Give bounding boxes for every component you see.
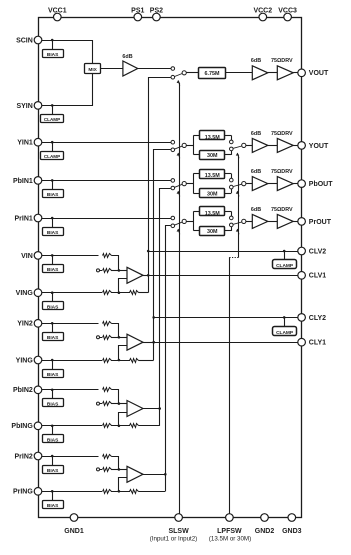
svg-text:VOUT: VOUT bbox=[309, 70, 329, 77]
wire VING row with resistors bbox=[42, 291, 148, 295]
filter Y 13.5M bbox=[193, 131, 231, 141]
resistor Pb ref bbox=[100, 402, 128, 406]
pin CLY2 bbox=[298, 314, 326, 322]
filter Pr 30M bbox=[193, 227, 231, 236]
LPFSW control arrow Y bbox=[237, 153, 239, 158]
pin GND1 bbox=[64, 514, 84, 535]
svg-text:(13.5M or 30M): (13.5M or 30M) bbox=[209, 536, 251, 543]
wire driver to output pin Pb bbox=[293, 183, 298, 185]
wire 6dB to 75ohm driver Pr bbox=[268, 221, 278, 223]
switch Pb input select bbox=[171, 179, 186, 190]
op-amp Y2 input amp bbox=[127, 334, 143, 350]
svg-text:BIAS: BIAS bbox=[47, 372, 59, 378]
svg-text:BIAS: BIAS bbox=[47, 468, 59, 474]
wire SYIN to MIX bbox=[42, 74, 93, 106]
pin VING bbox=[16, 289, 42, 297]
BIAS block under VING bbox=[43, 291, 64, 310]
BIAS block under YING bbox=[43, 359, 64, 378]
svg-text:30M: 30M bbox=[207, 153, 218, 159]
junction node V minus input bbox=[118, 291, 121, 294]
svg-text:GND3: GND3 bbox=[282, 528, 302, 535]
BIAS block under PbIN2 bbox=[43, 389, 64, 408]
wire driver to output pin V bbox=[293, 72, 298, 74]
svg-text:6dB: 6dB bbox=[251, 58, 261, 64]
wire CLY1 row (Y amp output) bbox=[154, 342, 298, 344]
switch Pr LPF select bbox=[230, 216, 246, 227]
wire Y feedback up bbox=[153, 342, 155, 360]
BIAS block under SCIN bbox=[43, 39, 64, 58]
wire Y minus input bbox=[119, 346, 128, 361]
op-amp 6dB Pr bbox=[251, 207, 268, 229]
junction node V plus input bbox=[118, 269, 121, 272]
wire V feedback up bbox=[148, 275, 150, 292]
op-amp 75 ohm driver Pb bbox=[271, 169, 293, 191]
pin CLV1 bbox=[298, 272, 326, 280]
svg-text:YOUT: YOUT bbox=[309, 143, 329, 150]
BIAS block under PbIN1 bbox=[43, 179, 64, 198]
svg-text:CLAMP: CLAMP bbox=[44, 154, 60, 159]
svg-text:VCC3: VCC3 bbox=[278, 8, 297, 15]
svg-text:BIAS: BIAS bbox=[47, 52, 59, 58]
op-amp V2 input amp bbox=[127, 267, 143, 283]
svg-text:30M: 30M bbox=[207, 191, 218, 197]
wire YING row with resistors bbox=[42, 359, 154, 363]
svg-text:6dB: 6dB bbox=[122, 54, 132, 60]
wire SCIN to MIX bbox=[42, 41, 93, 64]
op-amp Pr2 input amp bbox=[127, 466, 143, 482]
wire CLY2 row bbox=[154, 317, 298, 319]
svg-text:GND1: GND1 bbox=[64, 528, 84, 535]
wire PbING row with resistors bbox=[42, 424, 160, 428]
filter Pb 30M bbox=[193, 189, 231, 198]
svg-text:SLSW: SLSW bbox=[168, 528, 189, 535]
svg-text:BIAS: BIAS bbox=[47, 402, 59, 408]
resistor Pr ref bbox=[100, 468, 128, 472]
svg-text:LPFSW: LPFSW bbox=[217, 528, 242, 535]
wire LPFSW bus lower bbox=[229, 257, 231, 514]
pin PbOUT bbox=[298, 180, 333, 188]
wire Pb feedback up bbox=[159, 409, 161, 426]
svg-text:SYIN: SYIN bbox=[16, 103, 32, 110]
reference node Vref bbox=[97, 269, 100, 272]
svg-text:CLV1: CLV1 bbox=[309, 273, 326, 280]
svg-text:13.5M: 13.5M bbox=[205, 211, 220, 217]
pin VOUT bbox=[298, 69, 329, 77]
wire switch to Pr filters bbox=[186, 221, 193, 223]
junction node Pr plus input bbox=[118, 468, 121, 471]
SLSW control arrow V bbox=[178, 81, 180, 86]
svg-text:CLAMP: CLAMP bbox=[44, 117, 60, 122]
svg-text:VCC1: VCC1 bbox=[48, 8, 67, 15]
junction CLY2 tee bbox=[152, 316, 155, 319]
pin YING bbox=[16, 356, 42, 364]
pin PrING bbox=[13, 488, 42, 496]
wire LPF switch to 6dB amp Pr bbox=[246, 221, 252, 223]
svg-text:PrOUT: PrOUT bbox=[309, 219, 332, 226]
pin PrOUT bbox=[298, 218, 332, 226]
svg-text:PbIN2: PbIN2 bbox=[13, 387, 33, 394]
pin PrIN2 bbox=[15, 452, 42, 460]
junction node Pb minus input bbox=[118, 425, 121, 428]
wire LPF switch to 6dB amp Y bbox=[246, 145, 252, 147]
pin CLY1 bbox=[298, 338, 326, 346]
BIAS block under PrIN1 bbox=[43, 217, 64, 236]
mixer MIX bbox=[85, 64, 101, 74]
wire V2 bus to switch bbox=[149, 78, 171, 276]
clamp block Y bbox=[273, 327, 297, 337]
svg-text:75ΩDRV: 75ΩDRV bbox=[271, 58, 293, 64]
pin VCC3 bbox=[278, 8, 297, 21]
pin VIN bbox=[21, 252, 42, 260]
filter 6.75M bbox=[199, 68, 226, 79]
svg-text:BIAS: BIAS bbox=[47, 305, 59, 311]
svg-text:6dB: 6dB bbox=[251, 207, 261, 213]
IC body outline bbox=[39, 18, 302, 518]
wire switch to 6.75M filter bbox=[186, 72, 198, 74]
svg-text:13.5M: 13.5M bbox=[205, 173, 220, 179]
svg-text:BIAS: BIAS bbox=[47, 230, 59, 236]
pin PS2 bbox=[150, 8, 163, 21]
svg-text:BIAS: BIAS bbox=[47, 192, 59, 198]
filter Y 30M bbox=[193, 151, 231, 160]
pin PS1 bbox=[131, 8, 144, 21]
svg-text:CLAMP: CLAMP bbox=[276, 263, 294, 269]
svg-text:YING: YING bbox=[16, 357, 34, 364]
op-amp 6dB Y bbox=[251, 131, 268, 153]
junction V output node bbox=[147, 274, 150, 277]
wire VIN top path bbox=[42, 255, 99, 257]
svg-text:75ΩDRV: 75ΩDRV bbox=[271, 207, 293, 213]
BIAS block under PrING bbox=[43, 490, 64, 509]
pin LPFSW bbox=[217, 514, 242, 535]
junction node Pb plus input bbox=[118, 402, 121, 405]
junction node Y minus input bbox=[118, 359, 121, 362]
svg-text:PbOUT: PbOUT bbox=[309, 181, 333, 188]
wire YIN1 to input switch bbox=[42, 142, 171, 144]
pin CLV2 bbox=[298, 247, 326, 255]
wire PrIN top path bbox=[42, 456, 99, 458]
svg-text:YIN1: YIN1 bbox=[17, 140, 33, 147]
svg-text:6dB: 6dB bbox=[251, 169, 261, 175]
junction node Pr minus input bbox=[118, 490, 121, 493]
wire CLV1 row (V amp output) bbox=[148, 275, 298, 277]
resistor Y ref bbox=[100, 336, 128, 340]
svg-text:(Input1 or Input2): (Input1 or Input2) bbox=[150, 536, 197, 543]
BIAS block under YIN2 bbox=[43, 322, 64, 341]
op-amp 75 ohm driver Y bbox=[271, 131, 293, 153]
svg-text:SCIN: SCIN bbox=[16, 37, 33, 44]
svg-text:PbIN1: PbIN1 bbox=[13, 178, 33, 185]
pin SLSW bbox=[168, 514, 189, 535]
wire 6dB to 75ohm driver Y bbox=[268, 145, 278, 147]
junction Y output node bbox=[152, 341, 155, 344]
svg-text:PrIN2: PrIN2 bbox=[15, 453, 33, 460]
svg-text:YIN2: YIN2 bbox=[17, 321, 33, 328]
op-amp Pb2 input amp bbox=[127, 401, 143, 417]
svg-text:6dB: 6dB bbox=[251, 131, 261, 137]
wire PbIN top path bbox=[42, 389, 99, 391]
pin YIN2 bbox=[17, 320, 42, 328]
reference node Yref bbox=[97, 336, 100, 339]
svg-text:MIX: MIX bbox=[88, 67, 97, 73]
wire Pr minus input bbox=[119, 478, 128, 492]
wire clamp V stub bbox=[284, 251, 286, 260]
wire Pr2 bus to switch bbox=[166, 226, 171, 475]
junction Pr output node bbox=[164, 473, 167, 476]
wire clamp Y stub bbox=[284, 317, 286, 326]
svg-text:VING: VING bbox=[16, 290, 34, 297]
junction CLV2 tee bbox=[147, 250, 150, 253]
CLAMP block under SYIN bbox=[41, 104, 64, 122]
CLAMP block under YIN1 bbox=[41, 141, 64, 160]
wire 6dB to 75ohm driver Pb bbox=[268, 183, 278, 185]
pin GND3 bbox=[282, 514, 302, 535]
filter Pb 13.5M bbox=[193, 170, 231, 180]
svg-text:PS1: PS1 bbox=[131, 8, 144, 15]
SLSW control arrow Y bbox=[178, 153, 180, 158]
switch V input select bbox=[171, 67, 186, 79]
switch Pb LPF select bbox=[230, 178, 246, 189]
svg-text:BIAS: BIAS bbox=[47, 267, 59, 273]
wire switch to Y filters bbox=[186, 145, 193, 147]
wire SLSW control bus bbox=[179, 83, 181, 514]
wire Pr amp output bbox=[143, 474, 165, 476]
svg-text:CLV2: CLV2 bbox=[309, 248, 326, 255]
wire switch to Pb filters bbox=[186, 183, 193, 185]
wire PrIN1 to input switch bbox=[42, 218, 171, 220]
svg-text:PrIN1: PrIN1 bbox=[15, 215, 33, 222]
junction clamp V stub bbox=[283, 250, 286, 253]
pin PbING bbox=[11, 422, 41, 430]
op-amp 6dB V bbox=[251, 58, 268, 80]
clamp block V bbox=[273, 260, 297, 269]
switch Y LPF select bbox=[230, 140, 246, 151]
svg-text:PrING: PrING bbox=[13, 489, 33, 496]
LPFSW control arrow Pr bbox=[237, 229, 239, 234]
op-amp 75 ohm driver Pr bbox=[271, 207, 293, 229]
svg-text:CLAMP: CLAMP bbox=[276, 330, 294, 336]
switch Pr input select bbox=[171, 216, 186, 227]
BIAS block under PrIN2 bbox=[43, 455, 64, 474]
wire Y amp output bbox=[143, 342, 154, 344]
wire V minus input bbox=[119, 279, 128, 293]
wire 6.75M to 6dB amp bbox=[226, 72, 253, 74]
junction node Y plus input bbox=[118, 336, 121, 339]
SLSW control arrow Pr bbox=[178, 229, 180, 234]
pin SCIN bbox=[16, 36, 42, 44]
wire PrING row with resistors bbox=[42, 490, 166, 494]
wire Pb2 bus to switch bbox=[160, 189, 171, 409]
switch Y input select bbox=[171, 140, 186, 151]
pin VCC2 bbox=[253, 8, 272, 21]
reference node Pbref bbox=[97, 402, 100, 405]
filter Pr 13.5M bbox=[193, 207, 231, 217]
reference node Prref bbox=[97, 468, 100, 471]
svg-text:13.5M: 13.5M bbox=[205, 135, 220, 141]
wire Y2 bus to switch bbox=[154, 150, 171, 343]
wire MIX to 6dB amp bbox=[100, 68, 123, 70]
junction Pb output node bbox=[158, 407, 161, 410]
pin YIN1 bbox=[17, 138, 42, 146]
svg-text:GND2: GND2 bbox=[255, 528, 275, 535]
wire Pr feedback up bbox=[165, 474, 167, 491]
LPFSW control arrow Pb bbox=[237, 191, 239, 196]
svg-text:CLY1: CLY1 bbox=[309, 340, 326, 347]
wire CLV2 row bbox=[148, 251, 298, 253]
op-amp 75 ohm driver V bbox=[271, 58, 293, 80]
svg-text:VIN: VIN bbox=[21, 253, 33, 260]
pin GND2 bbox=[255, 514, 275, 535]
wire Pb minus input bbox=[119, 413, 128, 426]
svg-text:75ΩDRV: 75ΩDRV bbox=[271, 169, 293, 175]
svg-text:VCC2: VCC2 bbox=[253, 8, 272, 15]
svg-text:30M: 30M bbox=[207, 229, 218, 235]
junction clamp Y stub bbox=[283, 316, 286, 319]
svg-text:PbING: PbING bbox=[11, 423, 33, 430]
pin VCC1 bbox=[48, 8, 67, 21]
wire LPFSW jog bbox=[229, 257, 238, 259]
pin PrIN1 bbox=[15, 214, 42, 222]
wire driver to output pin Y bbox=[293, 145, 298, 147]
pin YOUT bbox=[298, 142, 329, 150]
wire 6dB amp to V input switch bbox=[138, 68, 171, 70]
wire driver to output pin Pr bbox=[293, 221, 298, 223]
svg-text:CLY2: CLY2 bbox=[309, 315, 326, 322]
wire LPF switch to 6dB amp Pb bbox=[246, 183, 252, 185]
op-amp 6dB Pb bbox=[251, 169, 268, 191]
svg-text:75ΩDRV: 75ΩDRV bbox=[271, 131, 293, 137]
wire Pb amp output bbox=[143, 408, 160, 410]
BIAS block under VIN bbox=[43, 254, 64, 273]
wire LPFSW control bus bbox=[238, 156, 240, 258]
svg-text:BIAS: BIAS bbox=[47, 438, 59, 444]
svg-text:6.75M: 6.75M bbox=[205, 71, 220, 77]
pin SYIN bbox=[16, 102, 41, 110]
pin PbIN2 bbox=[13, 386, 42, 394]
svg-text:BIAS: BIAS bbox=[47, 503, 59, 509]
wire PbIN1 to input switch bbox=[42, 180, 171, 182]
svg-text:BIAS: BIAS bbox=[47, 335, 59, 341]
resistor V ref bbox=[100, 269, 128, 273]
wire YIN top path bbox=[42, 323, 99, 325]
wire V amp output bbox=[143, 275, 148, 277]
BIAS block under PbING bbox=[43, 425, 64, 444]
SLSW control arrow Pb bbox=[178, 191, 180, 196]
wire 6dB to 75ohm driver V bbox=[268, 72, 278, 74]
svg-text:PS2: PS2 bbox=[150, 8, 163, 15]
op-amp 6dB (S mix) bbox=[122, 54, 137, 76]
pin PbIN1 bbox=[13, 177, 42, 185]
